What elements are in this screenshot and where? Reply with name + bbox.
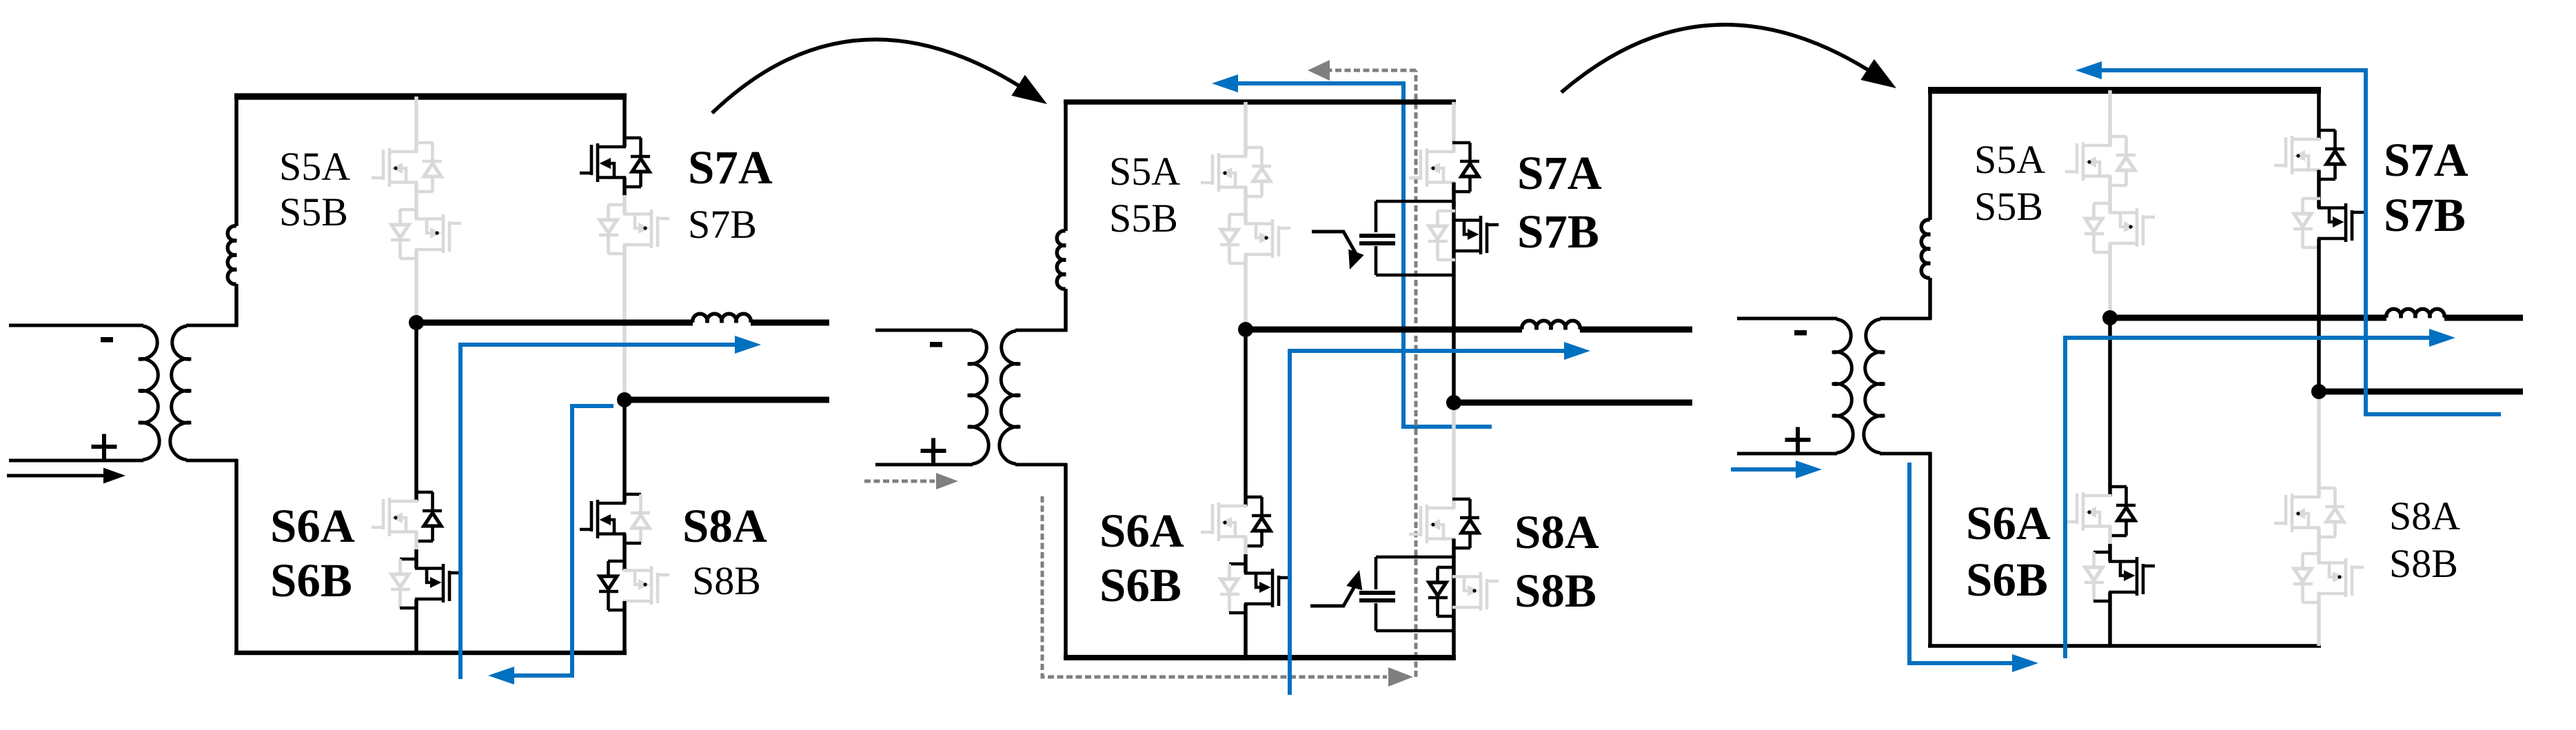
label + (panel 2) bbox=[921, 438, 946, 464]
wire top rail (panel 3) bbox=[1928, 87, 2321, 94]
label S8B (panel 3) bbox=[2389, 541, 2458, 586]
wire left rail upper (panel 1) bbox=[234, 97, 239, 226]
label S5A (panel 1) bbox=[279, 144, 350, 189]
MOSFET S8B bbox=[2293, 554, 2364, 602]
transformer T1 secondary winding bbox=[170, 325, 238, 460]
MOSFET S6B bbox=[2085, 552, 2155, 601]
wire S6B to bottom rail (panel 1) bbox=[414, 599, 418, 653]
MOSFET S7A bbox=[1409, 143, 1479, 192]
wire bottom rail (panel 1) bbox=[234, 651, 627, 656]
wire top rail to S5A (panel 1) bbox=[414, 97, 418, 152]
wire S8A to snubber box bbox=[1452, 539, 1456, 558]
node B (panel 2) bbox=[1446, 395, 1461, 410]
arrow capacitor current rising (S8B) bbox=[1310, 570, 1362, 606]
wire S8A to S8B bbox=[2317, 528, 2321, 563]
arrow capacitor current falling (S7B) bbox=[1312, 232, 1364, 270]
wire left rail lower (panel 2) bbox=[1064, 289, 1068, 332]
label S8B (panel 1) bbox=[692, 558, 761, 603]
inductor L3a (leakage, left rail) bbox=[1921, 220, 1930, 278]
wire S6B to bottom rail (panel 2) bbox=[1244, 604, 1248, 658]
wire S5A to S5B bbox=[2108, 176, 2112, 213]
MOSFET S8A bbox=[2274, 488, 2344, 537]
MOSFET S8B bbox=[1428, 567, 1499, 616]
label + (panel 3) bbox=[1785, 427, 1811, 453]
wire left rail lower (panel 1) bbox=[234, 284, 239, 327]
node A (panel 3) bbox=[2102, 310, 2118, 325]
wire top rail to S7A (panel 3) bbox=[2317, 90, 2321, 139]
MOSFET S6B bbox=[1220, 564, 1290, 613]
arrow primary current (panel 1) bbox=[7, 468, 125, 484]
label S5A (panel 2) bbox=[1109, 149, 1180, 194]
node A (panel 2) bbox=[1238, 322, 1253, 337]
arrow primary current (panel 3) bbox=[1731, 460, 1822, 478]
wire snubber box to bottom rail bbox=[1452, 631, 1456, 658]
MOSFET S5B bbox=[2085, 203, 2155, 252]
wire S7A to S7B bbox=[2317, 170, 2321, 208]
label - (panel 3) bbox=[1794, 330, 1807, 336]
wire top rail to S7A (panel 2) bbox=[1452, 102, 1456, 152]
inductor L1a (leakage, left rail) bbox=[227, 226, 236, 284]
label S7A (panel 1) bbox=[688, 141, 773, 194]
inductor L3b (output filter) bbox=[2386, 309, 2444, 318]
svg-text:S5A: S5A bbox=[1109, 149, 1180, 194]
MOSFET S5A bbox=[2065, 136, 2136, 185]
wire left rail lower (panel 3) bbox=[1928, 278, 1932, 320]
wire S8B to bottom rail bbox=[622, 601, 627, 653]
svg-text:S6B: S6B bbox=[1099, 559, 1181, 611]
wire top rail to S5A (panel 2) bbox=[1244, 102, 1248, 156]
label S5A (panel 3) bbox=[1974, 137, 2045, 182]
wire S7A to S7B bbox=[622, 178, 627, 214]
wire output line B (panel 1) bbox=[625, 397, 829, 403]
wire S5B to node1 (panel 3) bbox=[2108, 243, 2112, 318]
label S8A (panel 1) bbox=[682, 500, 767, 552]
label S7A (panel 3) bbox=[2384, 134, 2468, 186]
wire bottom rail (panel 3) bbox=[1928, 644, 2321, 648]
wire S7B to node2 bbox=[622, 245, 627, 400]
label S7B (panel 1) bbox=[688, 202, 757, 247]
svg-text:S7A: S7A bbox=[1517, 147, 1602, 199]
blue current path out (panel 2) bbox=[1290, 342, 1590, 695]
wire S7A to snubber box bbox=[1452, 183, 1456, 207]
label S5B (panel 2) bbox=[1109, 196, 1178, 241]
wire S7B to node2 bbox=[2317, 239, 2321, 392]
wire output line A (panel 3) bbox=[2110, 315, 2523, 321]
wire node2 to S8A (panel 1) bbox=[622, 400, 627, 503]
MOSFET S5B bbox=[391, 210, 461, 258]
svg-text:S8B: S8B bbox=[1514, 565, 1596, 617]
svg-text:S6A: S6A bbox=[1099, 505, 1184, 557]
svg-text:S5B: S5B bbox=[1974, 184, 2043, 229]
svg-text:S5B: S5B bbox=[1109, 196, 1178, 241]
label S8B (panel 2) bbox=[1514, 565, 1596, 617]
MOSFET S7B bbox=[599, 205, 669, 254]
wire S6B to bottom rail (panel 3) bbox=[2108, 592, 2112, 646]
snubber capacitor box around S7B bbox=[1359, 201, 1455, 275]
node B (panel 1) bbox=[617, 392, 632, 407]
transformer T1 primary winding bbox=[9, 325, 159, 460]
wire output line A (panel 1) bbox=[416, 320, 829, 326]
transformer T2 secondary winding bbox=[1000, 330, 1067, 465]
wire S8A to S8B bbox=[622, 534, 627, 571]
label S8A (panel 3) bbox=[2389, 494, 2460, 538]
MOSFET S8A bbox=[1409, 499, 1479, 548]
wire left rail upper (panel 3) bbox=[1928, 90, 1932, 220]
MOSFET S8B bbox=[599, 561, 669, 610]
blue current path return (panel 2) bbox=[1212, 74, 1492, 427]
MOSFET S7B bbox=[2293, 199, 2364, 247]
MOSFET S5B bbox=[1220, 214, 1290, 263]
label S6A (panel 3) bbox=[1966, 497, 2051, 549]
MOSFET S6A bbox=[372, 492, 442, 541]
wire secondary bottom to rail (panel 1) bbox=[234, 459, 239, 653]
gray dashed circulating path (panel 2) bbox=[1042, 60, 1416, 687]
label S7A (panel 2) bbox=[1517, 147, 1602, 199]
label - (panel 1) bbox=[101, 337, 113, 343]
MOSFET S5A bbox=[372, 143, 442, 192]
svg-text:S8A: S8A bbox=[2389, 494, 2460, 538]
label - (panel 2) bbox=[930, 342, 942, 347]
wire node2 to S8A (panel 2) bbox=[1452, 403, 1456, 508]
MOSFET S7B bbox=[1428, 211, 1499, 260]
wire top rail (panel 1) bbox=[234, 93, 627, 100]
label S6B (panel 2) bbox=[1099, 559, 1181, 611]
wire snubber box to node2 bbox=[1452, 275, 1456, 403]
wire secondary bottom to rail (panel 2) bbox=[1064, 463, 1068, 658]
wire top rail to S5A (panel 3) bbox=[2108, 90, 2112, 145]
svg-text:S7A: S7A bbox=[688, 141, 773, 194]
blue current path return (panel 1) bbox=[488, 406, 613, 685]
svg-text:S6B: S6B bbox=[1966, 554, 2048, 606]
inductor L2a (leakage, left rail) bbox=[1057, 231, 1066, 289]
wire node1 to S6A (panel 1) bbox=[414, 323, 418, 501]
blue current path return (panel 3) bbox=[2076, 61, 2501, 414]
wire S5B to node1 (panel 1) bbox=[414, 250, 418, 323]
wire left rail upper (panel 2) bbox=[1064, 102, 1068, 231]
svg-text:S6A: S6A bbox=[1966, 497, 2051, 549]
svg-text:S6A: S6A bbox=[270, 500, 355, 552]
wire S6A to S6B bbox=[2108, 527, 2112, 562]
label S7B (panel 3) bbox=[2384, 189, 2466, 241]
inductor L1b (output filter) bbox=[693, 314, 751, 323]
svg-text:S8A: S8A bbox=[682, 500, 767, 552]
arrow transition panel 2 to 3 bbox=[1561, 25, 1896, 92]
MOSFET S8A bbox=[580, 494, 650, 543]
label S6B (panel 1) bbox=[270, 554, 352, 607]
node B (panel 3) bbox=[2311, 384, 2326, 399]
label S6B (panel 3) bbox=[1966, 554, 2048, 606]
label S7B (panel 2) bbox=[1517, 205, 1599, 258]
svg-text:S6B: S6B bbox=[270, 554, 352, 607]
svg-text:S5B: S5B bbox=[279, 190, 348, 234]
wire output line A (panel 2) bbox=[1246, 327, 1692, 333]
svg-text:S5A: S5A bbox=[279, 144, 350, 189]
label S6A (panel 2) bbox=[1099, 505, 1184, 557]
svg-text:S8B: S8B bbox=[2389, 541, 2458, 586]
svg-text:S7B: S7B bbox=[1517, 205, 1599, 258]
node A (panel 1) bbox=[409, 315, 424, 330]
svg-text:S8B: S8B bbox=[692, 558, 761, 603]
MOSFET S6B bbox=[391, 559, 461, 608]
wire S5B to node1 (panel 2) bbox=[1244, 254, 1248, 329]
label S8A (panel 2) bbox=[1514, 506, 1599, 558]
wire output line B (panel 2) bbox=[1454, 400, 1692, 406]
label S6A (panel 1) bbox=[270, 500, 355, 552]
MOSFET S7A bbox=[2274, 130, 2344, 179]
wire S5A to S5B bbox=[414, 183, 418, 219]
wire secondary bottom to rail (panel 3) bbox=[1928, 452, 1932, 646]
wire S6A to S6B bbox=[414, 532, 418, 569]
snubber capacitor box around S8B bbox=[1359, 557, 1455, 631]
blue current path out (panel 3) bbox=[2065, 329, 2455, 658]
MOSFET S7A bbox=[580, 138, 650, 187]
wire S6A to S6B bbox=[1244, 537, 1248, 574]
wire top rail to S7A (panel 1) bbox=[622, 97, 627, 147]
svg-text:S7A: S7A bbox=[2384, 134, 2468, 186]
wire node1 to S6A (panel 3) bbox=[2108, 318, 2112, 496]
svg-text:S5A: S5A bbox=[1974, 137, 2045, 182]
label S5B (panel 3) bbox=[1974, 184, 2043, 229]
wire S5A to S5B bbox=[1244, 187, 1248, 224]
label S5B (panel 1) bbox=[279, 190, 348, 234]
arrow transition panel 1 to 2 bbox=[712, 39, 1047, 113]
wire output line B (panel 3) bbox=[2319, 389, 2523, 395]
label + (panel 1) bbox=[92, 434, 117, 460]
wire node1 to S6A (panel 2) bbox=[1244, 329, 1248, 506]
MOSFET S6A bbox=[2065, 487, 2136, 536]
wire top rail (panel 2) bbox=[1064, 99, 1456, 105]
arrow primary current dashed (panel 2) bbox=[864, 473, 958, 489]
transformer T2 primary winding bbox=[875, 330, 988, 465]
svg-text:S8A: S8A bbox=[1514, 506, 1599, 558]
wire bottom rail (panel 2) bbox=[1064, 655, 1456, 660]
svg-text:S7B: S7B bbox=[2384, 189, 2466, 241]
MOSFET S5A bbox=[1201, 148, 1271, 196]
transformer T3 secondary winding bbox=[1864, 318, 1931, 454]
wire S8B to bottom rail bbox=[2317, 594, 2321, 646]
svg-text:S7B: S7B bbox=[688, 202, 757, 247]
inductor L2b (output filter) bbox=[1522, 321, 1580, 329]
wire node2 to S8A (panel 3) bbox=[2317, 392, 2321, 497]
transformer T3 primary winding bbox=[1737, 318, 1853, 454]
MOSFET S6A bbox=[1201, 497, 1271, 546]
blue current path transformer leg (panel 3) bbox=[1909, 463, 2038, 672]
blue current path out (panel 1) bbox=[460, 336, 761, 679]
